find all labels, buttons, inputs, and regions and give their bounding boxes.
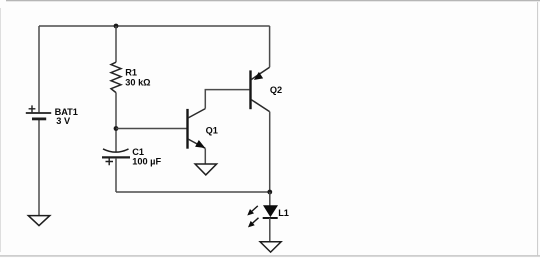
ground (Q1 emitter) <box>195 164 217 175</box>
node: R1 / C1 / Q1 base junction <box>114 126 119 131</box>
svg-text:Q1: Q1 <box>206 125 218 135</box>
wire: junction to LED anode <box>269 192 271 206</box>
node: bottom rail / LED junction <box>267 190 272 195</box>
wire: battery negative lead down to ground <box>38 120 40 216</box>
wire: R1 top stub from rail <box>115 26 117 62</box>
wire: Q2 collector down to LED junction <box>269 112 271 192</box>
wire: LED cathode down to ground <box>269 218 271 242</box>
svg-text:100 µF: 100 µF <box>132 156 161 166</box>
svg-text:Q2: Q2 <box>270 85 282 95</box>
node: top rail / R1 junction <box>114 24 119 29</box>
svg-text:3 V: 3 V <box>56 116 71 126</box>
wire: base wire from node to Q1 <box>116 128 187 130</box>
wire: C1 bottom lead <box>115 158 117 192</box>
ground (LED) <box>260 242 281 252</box>
wire: battery positive lead (left vertical) <box>38 26 40 112</box>
svg-text:30 kΩ: 30 kΩ <box>125 78 150 88</box>
wire: Q1 collector up and over to Q2 base <box>205 90 249 109</box>
battery BAT1 <box>26 105 51 119</box>
svg-text:L1: L1 <box>278 208 289 218</box>
wire: top power rail from battery + to Q2 emitter column <box>39 25 270 27</box>
wire: Q2 emitter up to rail <box>269 26 271 67</box>
transistor Q2 <box>251 67 270 111</box>
wire: Q1 emitter down to ground <box>204 148 206 164</box>
label C1 value <box>132 147 161 166</box>
svg-text:R1: R1 <box>125 68 137 78</box>
capacitor C1 <box>102 149 130 165</box>
label R1 value <box>125 68 150 88</box>
wire: R1 bottom to node and capacitor top <box>115 93 117 152</box>
ground (battery) <box>28 216 50 226</box>
wire: bottom rail from C1 to LED junction <box>116 191 270 193</box>
label BAT1 value <box>55 107 78 126</box>
LED L1 <box>248 206 278 227</box>
transistor Q1 <box>188 109 206 149</box>
resistor R1 <box>111 62 121 92</box>
